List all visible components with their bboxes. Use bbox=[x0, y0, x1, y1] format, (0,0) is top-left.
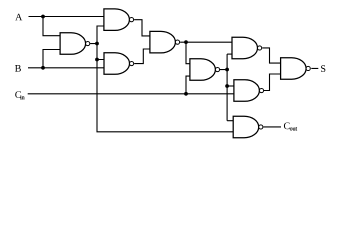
nand gate U5 NAND(A^B,Cin) bbox=[190, 59, 220, 81]
junction dot N5 at G7 branch bbox=[225, 84, 229, 88]
junction dot N5 at G5 output bbox=[225, 68, 229, 72]
wire N1 down to G3 top input bbox=[97, 44, 106, 60]
wire N1 up to G2 bottom input bbox=[97, 26, 106, 44]
nand gate U2 NAND(A,N1) bbox=[104, 9, 134, 31]
wire N5 to G7 top input bbox=[227, 85, 236, 87]
wire Cin horizontal to G7 bottom input bbox=[28, 93, 236, 95]
wire G2 output to G4 top input bbox=[134, 20, 151, 36]
junction dot Cin branch bbox=[184, 92, 188, 96]
wire G9 output to Cout bbox=[263, 126, 281, 128]
wire N5 to G6 bottom input bbox=[227, 53, 233, 55]
nand gate U6 NAND(A^B,N5) bbox=[232, 37, 262, 59]
wire G5 output to node N5 bbox=[219, 69, 227, 71]
wire G1 output to node N1 bbox=[90, 43, 97, 45]
wire Cin branch up to G5 bottom input bbox=[186, 76, 191, 94]
wire B to G1 bottom input bbox=[43, 50, 62, 68]
wire G7 output to G8 bottom input bbox=[264, 74, 283, 91]
label S bbox=[321, 65, 325, 72]
wire N1 long feedback to G9 bottom input bbox=[97, 60, 235, 132]
wire N5 to G9 top input bbox=[227, 120, 234, 122]
wire B horizontal bbox=[28, 67, 106, 69]
wire G3 output to G4 bottom input bbox=[134, 49, 151, 64]
nand gate U7 NAND(N5,Cin) bbox=[234, 80, 264, 102]
wire G6 output to G8 top input bbox=[262, 48, 282, 63]
nand gate U9 carry output bbox=[233, 116, 263, 138]
wire A horizontal bbox=[29, 16, 106, 18]
label Cin bbox=[15, 91, 21, 98]
junction dot B branch bbox=[41, 66, 45, 70]
junction dot N1 at G1 output bbox=[95, 42, 99, 46]
wire node N4 down to G5 top input bbox=[186, 42, 191, 64]
nand gate U4 xor out A^B bbox=[150, 31, 180, 53]
junction dot N1 at G3 top input bbox=[95, 58, 99, 62]
label Cout bbox=[284, 122, 290, 129]
wire G4 output to G6 top input bbox=[180, 41, 233, 43]
nand gate U1 NAND(A,B) bbox=[60, 33, 90, 55]
wire A to G1 top input bbox=[43, 17, 62, 36]
junction dot N4 at G4 output bbox=[184, 40, 188, 44]
wire G8 output to S bbox=[311, 67, 318, 69]
label A bbox=[15, 14, 22, 21]
label B bbox=[15, 65, 21, 72]
nand gate U8 sum output bbox=[281, 58, 311, 79]
wire N5 vertical bus bbox=[226, 54, 228, 121]
nand gate U3 NAND(N1,B) bbox=[104, 53, 134, 75]
junction dot A branch bbox=[41, 15, 45, 19]
